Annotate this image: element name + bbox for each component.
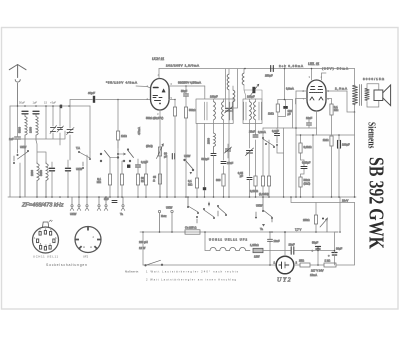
value labels row bbox=[19, 101, 57, 105]
svg-text:250Ω: 250Ω bbox=[303, 218, 310, 222]
capacitor blob S4 bbox=[127, 165, 130, 168]
wire to bus bbox=[137, 185, 139, 197]
coil L5 bbox=[214, 133, 216, 153]
antenna bbox=[9, 65, 26, 107]
svg-text:8000/15Ω: 8000/15Ω bbox=[363, 77, 385, 81]
wire to bus bbox=[159, 184, 161, 197]
wire col269 bbox=[268, 140, 270, 197]
wire R8 bbox=[196, 124, 198, 198]
capacitor 0,1uF bbox=[136, 165, 141, 167]
node j15 bbox=[269, 231, 271, 233]
svg-text:2 Watt Lautstärkeregler am inn: 2 Watt Lautstärkeregler am innen Anschla… bbox=[146, 278, 236, 282]
transformer core bbox=[360, 85, 362, 106]
svg-text:2,0mA: 2,0mA bbox=[335, 87, 347, 91]
node j1 bbox=[117, 99, 119, 101]
svg-text:SB 392 GWK: SB 392 GWK bbox=[365, 157, 389, 250]
wire top-left horizontal rail bbox=[10, 105, 90, 107]
coil Losc2 bbox=[233, 90, 235, 102]
svg-text:UKW: UKW bbox=[20, 145, 27, 149]
svg-text:μF: μF bbox=[240, 174, 244, 178]
svg-text:0,1μF: 0,1μF bbox=[272, 129, 279, 133]
wire pin5 anode bbox=[326, 90, 347, 92]
svg-text:Ω: Ω bbox=[153, 179, 155, 183]
node j9 bbox=[338, 134, 340, 136]
wire col110 bbox=[109, 158, 111, 175]
svg-text:pF: pF bbox=[288, 112, 291, 116]
node j13 bbox=[315, 231, 317, 233]
plug UKW group bbox=[70, 197, 89, 211]
resistor 65ohm bbox=[159, 156, 161, 174]
wire 50uF-2 bbox=[317, 249, 319, 265]
svg-text:1MΩ: 1MΩ bbox=[323, 138, 329, 142]
svg-text:12 W: 12 W bbox=[139, 246, 146, 250]
wire UY2 top bbox=[284, 232, 286, 256]
output transformer secondary bbox=[365, 88, 370, 100]
wire T1 drops bbox=[205, 99, 224, 187]
wire C6 bbox=[51, 162, 53, 197]
capacitor 0,1uF-2 bbox=[275, 134, 280, 136]
resistor Cu105 bbox=[185, 230, 200, 234]
svg-text:30pF: 30pF bbox=[88, 91, 95, 95]
wire mains rail bbox=[140, 231, 338, 233]
wire UY2 right bbox=[294, 264, 300, 266]
capacitor tick on rail bbox=[60, 105, 62, 109]
svg-text:(5kΩ): (5kΩ) bbox=[146, 144, 153, 148]
coil L4 bbox=[46, 162, 48, 197]
capacitor 10nF-c bbox=[268, 239, 273, 241]
svg-text:220 μH: 220 μH bbox=[139, 240, 148, 244]
svg-text:217 V 24V: 217 V 24V bbox=[311, 269, 324, 273]
svg-text:0,3MΩ: 0,3MΩ bbox=[304, 145, 312, 149]
wire grid drop bbox=[284, 69, 286, 100]
capacitor C-ant1 bbox=[22, 111, 28, 114]
wire col223 bbox=[223, 124, 225, 175]
svg-text:1 kΩ: 1 kΩ bbox=[325, 259, 331, 263]
node j5 bbox=[295, 127, 297, 129]
svg-text:0,25μF: 0,25μF bbox=[302, 161, 311, 165]
node dots ground bus bbox=[19, 196, 355, 198]
svg-text:UCH11 UEL11: UCH11 UEL11 bbox=[33, 255, 59, 259]
svg-text:100μF: 100μF bbox=[342, 143, 350, 147]
wire down bbox=[331, 115, 333, 135]
resistor R7 bbox=[222, 174, 225, 186]
wire heater aux bbox=[270, 250, 335, 252]
resistor 250ohm bbox=[314, 215, 317, 224]
wire 100uF column bbox=[338, 135, 340, 197]
capacitor C-ant2 bbox=[33, 111, 39, 114]
wire cathode bottom bbox=[316, 111, 318, 128]
svg-text:Maßwerte:: Maßwerte: bbox=[125, 270, 139, 274]
svg-text:+5pF: +5pF bbox=[50, 101, 57, 105]
node j3 bbox=[185, 85, 187, 87]
svg-text:0,9mA: 0,9mA bbox=[286, 87, 294, 91]
svg-text:23+V: 23+V bbox=[342, 199, 349, 203]
wire speaker loop bbox=[367, 84, 379, 107]
wire C11 bbox=[227, 144, 229, 158]
svg-text:(0,1MΩ): (0,1MΩ) bbox=[259, 192, 269, 196]
wire anode route bbox=[347, 91, 355, 112]
resistor 50k bbox=[173, 107, 176, 116]
resistor 0,1M-2 bbox=[330, 104, 333, 115]
wire col334 bbox=[335, 232, 339, 251]
svg-text:(95V) 50mA: (95V) 50mA bbox=[322, 67, 348, 71]
coil Losc3 bbox=[242, 73, 244, 85]
wire C9 to bus bbox=[213, 156, 215, 198]
svg-text:T.A: T.A bbox=[76, 146, 80, 150]
svg-text:MΩ: MΩ bbox=[97, 180, 101, 184]
capacitor trimmer C11 bbox=[225, 147, 232, 153]
switch S3 bbox=[100, 151, 119, 162]
wire to bus bbox=[109, 185, 111, 197]
resistor 1,25k bbox=[253, 248, 263, 252]
wire anode up bbox=[158, 69, 160, 79]
wire anode rail bbox=[159, 68, 355, 70]
wire heater left bbox=[205, 232, 210, 251]
coil L3 bbox=[37, 162, 39, 197]
oscillator box bbox=[226, 69, 238, 108]
svg-text:30μF: 30μF bbox=[336, 247, 343, 251]
capacitor 0,25uF bbox=[301, 167, 307, 169]
node j2 bbox=[174, 99, 176, 101]
wire 50uF bbox=[185, 86, 187, 107]
svg-text:Sockelschaltungen: Sockelschaltungen bbox=[46, 263, 87, 267]
capacitor 10nF-a bbox=[307, 123, 312, 125]
wire cap link bbox=[276, 128, 278, 139]
svg-text:160pF: 160pF bbox=[247, 95, 255, 99]
wire pin6 bbox=[326, 99, 332, 105]
svg-text:25Ω: 25Ω bbox=[299, 259, 304, 263]
IF transformer T1 frame bbox=[196, 86, 233, 124]
svg-text:50kΩ (0k,07V): 50kΩ (0k,07V) bbox=[146, 116, 163, 120]
wire left box left edge bbox=[9, 106, 11, 197]
svg-text:UEL 11: UEL 11 bbox=[308, 62, 319, 66]
capacitor T2 right bbox=[259, 102, 261, 120]
wire right drops bbox=[79, 152, 90, 197]
wire col146 bbox=[145, 160, 147, 174]
heater filaments bbox=[210, 247, 250, 250]
svg-text:MΩ: MΩ bbox=[334, 108, 338, 112]
resistor 1M-2 bbox=[276, 104, 279, 112]
resistor 50k-2 bbox=[184, 107, 187, 118]
svg-text:1,25kΩ: 1,25kΩ bbox=[250, 243, 259, 247]
switch S4 bbox=[123, 149, 133, 162]
socket UCH11-UEL11 bbox=[33, 220, 59, 253]
node dots mains rail bbox=[142, 231, 335, 266]
node j8 bbox=[312, 134, 314, 136]
capacitor C6 bbox=[50, 168, 55, 171]
IF transformer T2 frame bbox=[243, 99, 262, 124]
svg-text:(1kΩ): (1kΩ) bbox=[304, 182, 311, 186]
coil T2b bbox=[254, 102, 256, 120]
capacitor 90pF bbox=[172, 154, 174, 160]
resistor 25ohm bbox=[300, 263, 310, 267]
wire col255 bbox=[255, 130, 257, 197]
capacitor T1 left bbox=[205, 102, 207, 120]
resistor R10 bbox=[261, 176, 264, 186]
svg-text:7,7 V: 7,7 V bbox=[295, 228, 301, 232]
wire 30uF bbox=[334, 251, 336, 266]
svg-text:50pF: 50pF bbox=[19, 101, 25, 105]
capacitor 25nF blob bbox=[203, 187, 206, 190]
coil T1b bbox=[222, 102, 224, 120]
wire left drop bbox=[142, 232, 144, 265]
node j12 bbox=[317, 264, 319, 266]
svg-text:1MΩ: 1MΩ bbox=[268, 112, 274, 116]
svg-text:15mA: 15mA bbox=[310, 273, 317, 277]
wire to bus bbox=[223, 186, 225, 197]
plug antenna group bbox=[97, 197, 125, 211]
switch S3 arrow bbox=[117, 153, 125, 155]
wire mains bottom bbox=[143, 264, 276, 266]
svg-text:10nF: 10nF bbox=[289, 243, 295, 247]
resistor R11 bbox=[267, 176, 270, 186]
switch cluster A bbox=[217, 205, 226, 216]
svg-text:MΩ: MΩ bbox=[188, 183, 192, 187]
capacitor 100uF bbox=[338, 141, 341, 149]
coil T2a bbox=[250, 102, 252, 120]
trimmer capacitor C4 bbox=[57, 126, 64, 132]
svg-text:15: 15 bbox=[44, 101, 47, 105]
tube UY2 bbox=[276, 256, 294, 274]
svg-text:5800: 5800 bbox=[39, 170, 43, 176]
capacitor 100pF bbox=[283, 106, 288, 109]
capacitor T2 left bbox=[244, 102, 246, 120]
svg-text:kΩ: kΩ bbox=[141, 179, 144, 183]
node j11 bbox=[284, 231, 286, 233]
socket UF2 bbox=[75, 226, 101, 253]
capacitor 30pF bbox=[93, 96, 95, 103]
wire y135 rail bbox=[296, 134, 355, 136]
capacitor C9 bbox=[211, 154, 216, 156]
wire cathode down bbox=[159, 110, 161, 197]
svg-text:1nF: 1nF bbox=[9, 137, 14, 141]
wire j1 drop bbox=[117, 100, 119, 132]
tube UCH11 bbox=[151, 79, 170, 111]
svg-text:UKW: UKW bbox=[70, 212, 77, 216]
wire cap drop bbox=[137, 159, 139, 174]
capacitor C10 bbox=[221, 162, 226, 164]
svg-text:*55/120V 4/3mA: *55/120V 4/3mA bbox=[106, 81, 137, 85]
node j10 bbox=[271, 231, 273, 233]
wire col118 switch feed bbox=[117, 140, 119, 148]
wire C7 bbox=[67, 160, 69, 197]
wire 30pF branch bbox=[70, 100, 151, 107]
UY2 internals bbox=[279, 262, 289, 269]
coil L1 bbox=[25, 114, 27, 197]
wire C13 down bbox=[249, 153, 251, 176]
wire lower link bbox=[284, 91, 317, 197]
wire j12 bbox=[310, 264, 324, 266]
svg-text:UKW: UKW bbox=[256, 204, 263, 208]
capacitor 250pF bbox=[271, 66, 274, 72]
wire 1M to bus bbox=[117, 140, 119, 197]
resistor R6 bbox=[144, 174, 147, 185]
wire heater right bbox=[263, 251, 270, 266]
wire T2 drops bbox=[250, 99, 256, 148]
resistor 50k-3 bbox=[299, 177, 302, 187]
tube UEL11 bbox=[307, 80, 326, 111]
wire col331 lower bbox=[331, 146, 333, 197]
svg-text:12W: 12W bbox=[254, 255, 260, 259]
svg-text:0,2mA: 0,2mA bbox=[258, 130, 266, 134]
svg-text:UF2: UF2 bbox=[83, 255, 89, 259]
svg-text:Netz: Netz bbox=[161, 214, 167, 218]
wire mid verticals bbox=[60, 106, 70, 160]
svg-text:800: 800 bbox=[216, 178, 221, 182]
switch S5 bbox=[262, 137, 277, 147]
resistor 1M-3 bbox=[330, 136, 333, 146]
wire main ground bus bbox=[8, 196, 356, 198]
wire bottom right bbox=[336, 203, 355, 266]
trimmer capacitor C12 bbox=[252, 87, 255, 93]
wire AVC drop bbox=[292, 100, 294, 129]
node j4 bbox=[284, 68, 286, 70]
loudspeaker bbox=[374, 85, 391, 106]
wire to bus bbox=[185, 118, 187, 197]
svg-text:25nF: 25nF bbox=[249, 130, 255, 134]
trimmer capacitor C13 bbox=[246, 148, 254, 156]
wire pin5 bbox=[169, 99, 175, 101]
wire pin6 rail bbox=[169, 85, 205, 87]
wire transformer bottom bbox=[354, 105, 357, 112]
svg-text:2+k 0,85mA: 2+k 0,85mA bbox=[279, 64, 303, 68]
switch S-mains bbox=[145, 260, 163, 266]
svg-text:UCH 11: UCH 11 bbox=[152, 57, 164, 61]
svg-text:H: H bbox=[90, 245, 92, 249]
wire S5 link bbox=[263, 128, 284, 197]
svg-text:0,1μF: 0,1μF bbox=[141, 160, 148, 164]
resistor 0,1M bbox=[108, 174, 111, 185]
wire col263 bbox=[262, 128, 264, 197]
wire screen leader bbox=[136, 86, 151, 88]
wire to bus bbox=[121, 185, 123, 197]
wire col122 bbox=[122, 161, 124, 174]
svg-text:1000: 1000 bbox=[29, 127, 33, 133]
node j7 bbox=[300, 134, 302, 136]
svg-text:50kΩ: 50kΩ bbox=[304, 178, 310, 182]
resistor 30k bbox=[136, 174, 139, 185]
svg-text:UCH11 UEL11 UF2: UCH11 UEL11 UF2 bbox=[209, 238, 248, 242]
wire left box right edge bbox=[89, 106, 91, 152]
node j4b bbox=[284, 99, 286, 101]
svg-text:1 Watt Lautstärkeregler 240° n: 1 Watt Lautstärkeregler 240° nach rechts bbox=[146, 270, 239, 274]
resistor R4 bbox=[120, 174, 123, 185]
pin numbers bbox=[147, 73, 173, 116]
wire to bus bbox=[145, 185, 147, 197]
svg-text:ZF=468/473 kHz: ZF=468/473 kHz bbox=[21, 203, 64, 209]
svg-text:50kΩ: 50kΩ bbox=[189, 108, 195, 112]
trimmer capacitor C3 bbox=[50, 126, 57, 134]
pin numbers bbox=[303, 75, 330, 101]
svg-text:H: H bbox=[83, 245, 85, 249]
capacitor C7 bbox=[66, 168, 71, 171]
wire col340 bottom bbox=[339, 197, 341, 232]
wire pin2 left bbox=[296, 90, 307, 92]
svg-text:Ta: Ta bbox=[260, 227, 263, 231]
wire to bus bbox=[249, 180, 251, 198]
wire antenna drop bbox=[17, 106, 19, 150]
wire input sub-box bbox=[20, 106, 65, 139]
wire 10nF-a bbox=[308, 120, 310, 129]
wire 10nF-c drop bbox=[269, 232, 271, 251]
wire j2 drop bbox=[174, 100, 176, 108]
output transformer primary bbox=[352, 85, 357, 104]
capacitor 25nF-2 bbox=[253, 135, 258, 137]
wire grid leak top bbox=[278, 99, 293, 101]
wire grid pin3 bbox=[311, 69, 313, 81]
wire osc coupling bbox=[243, 69, 245, 74]
svg-text:UKW: UKW bbox=[184, 154, 191, 158]
capacitor C5 1nF bbox=[15, 137, 21, 139]
wire pin7 bbox=[296, 99, 308, 105]
wire osc stubs bbox=[229, 69, 233, 197]
svg-text:Cu 105 Ω: Cu 105 Ω bbox=[185, 226, 196, 230]
svg-text:25nF: 25nF bbox=[227, 161, 233, 165]
wire col316 bbox=[315, 203, 317, 233]
node j6 bbox=[354, 111, 356, 113]
coil T1a bbox=[214, 102, 216, 120]
svg-text:0,2MΩ: 0,2MΩ bbox=[250, 189, 258, 193]
svg-text:5800: 5800 bbox=[18, 127, 22, 133]
potentiometer arrow bbox=[320, 218, 328, 233]
svg-text:65: 65 bbox=[153, 175, 156, 179]
svg-text:160pF: 160pF bbox=[210, 95, 218, 99]
resistor R8 bbox=[195, 178, 198, 188]
svg-text:1MΩ: 1MΩ bbox=[121, 134, 127, 138]
svg-text:50μF: 50μF bbox=[312, 241, 319, 245]
coil L2 bbox=[36, 114, 38, 140]
trimmer capacitor C11b bbox=[225, 107, 233, 114]
svg-text:1pF: 1pF bbox=[33, 101, 38, 105]
wire to bus bbox=[174, 116, 176, 197]
wire switch to coils bbox=[19, 163, 21, 197]
resistor 1k bbox=[324, 263, 336, 267]
svg-text:10nF: 10nF bbox=[274, 239, 280, 243]
svg-text:Ta: Ta bbox=[120, 212, 123, 216]
wire col167 bbox=[166, 156, 168, 197]
svg-text:UKW: UKW bbox=[166, 206, 173, 210]
svg-text:2000: 2000 bbox=[30, 170, 34, 176]
svg-text:4/7mA: 4/7mA bbox=[137, 127, 141, 135]
wire right drop bbox=[354, 112, 356, 197]
coil Losc1 bbox=[227, 74, 229, 90]
trimmer capacitor C8 bbox=[67, 128, 75, 135]
wire Losc3 down bbox=[244, 85, 262, 99]
wire coil tops bbox=[36, 140, 46, 162]
svg-text:250pF: 250pF bbox=[265, 74, 273, 78]
resistor 1M bbox=[117, 131, 120, 140]
wire col313 bbox=[312, 135, 314, 197]
capacitor T1 right bbox=[230, 102, 232, 120]
svg-text:202/205V 1,8/0mA: 202/205V 1,8/0mA bbox=[166, 64, 199, 68]
wire 213V rail bbox=[291, 197, 355, 203]
svg-text:U Y 2: U Y 2 bbox=[277, 278, 291, 284]
svg-text:Siemens: Siemens bbox=[366, 122, 378, 149]
node j14 bbox=[317, 247, 319, 249]
wire pin4 bbox=[322, 73, 327, 80]
tube UCH11 internals bbox=[153, 88, 165, 105]
svg-text:50μF: 50μF bbox=[181, 89, 188, 93]
tube UEL11 internals bbox=[310, 87, 324, 101]
svg-text:500pF: 500pF bbox=[201, 157, 209, 161]
svg-text:89/150V 4,5/3mA: 89/150V 4,5/3mA bbox=[178, 81, 201, 85]
svg-text:0,1: 0,1 bbox=[188, 179, 192, 183]
node dots top rail bbox=[17, 68, 313, 107]
resistor 0,3M bbox=[299, 143, 302, 153]
wire transformer top bbox=[354, 69, 357, 86]
right power column 300 bbox=[301, 135, 305, 197]
resistor R9 bbox=[254, 176, 257, 186]
